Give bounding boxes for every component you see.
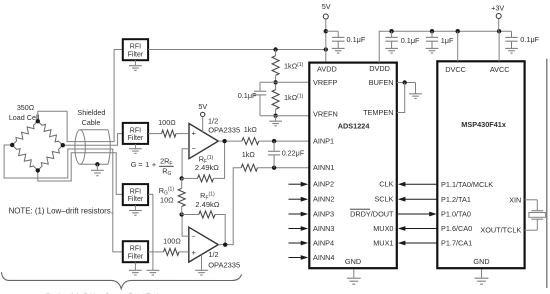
svg-text:MUX1: MUX1: [373, 239, 393, 248]
svg-text:P1.0/TA0: P1.0/TA0: [441, 210, 471, 219]
svg-text:AINN2: AINN2: [313, 195, 335, 204]
svg-text:AVCC: AVCC: [490, 65, 510, 74]
svg-text:RFI: RFI: [130, 127, 141, 134]
svg-text:XIN: XIN: [509, 195, 521, 204]
svg-text:+: +: [192, 128, 196, 137]
svg-text:OPA2335: OPA2335: [208, 126, 240, 135]
svg-text:0.1μF: 0.1μF: [347, 35, 366, 44]
svg-text:Filter: Filter: [128, 135, 144, 142]
svg-text:GND: GND: [473, 257, 489, 266]
svg-text:P1.7/CA1: P1.7/CA1: [441, 239, 472, 248]
svg-text:1: 1: [145, 160, 149, 169]
svg-text:AVDD: AVDD: [317, 65, 337, 74]
svg-text:AINP1: AINP1: [313, 137, 334, 146]
svg-text:SCLK: SCLK: [374, 195, 393, 204]
svg-text:+: +: [192, 248, 196, 257]
svg-text:BUFEN: BUFEN: [369, 78, 394, 87]
svg-text:AINP2: AINP2: [313, 180, 334, 189]
svg-text:=: =: [138, 160, 142, 169]
svg-text:−: −: [191, 232, 195, 241]
svg-text:Filter: Filter: [128, 253, 144, 260]
svg-text:100Ω: 100Ω: [163, 236, 181, 245]
svg-text:OPA2335: OPA2335: [208, 260, 240, 269]
svg-text:5V: 5V: [198, 102, 207, 111]
svg-text:100Ω: 100Ω: [158, 118, 176, 127]
svg-text:1kΩ: 1kΩ: [242, 150, 256, 159]
svg-text:−: −: [192, 144, 196, 153]
svg-text:5V: 5V: [322, 2, 331, 11]
svg-text:350Ω: 350Ω: [17, 103, 35, 112]
svg-text:AINN4: AINN4: [313, 253, 335, 262]
svg-text:+3V: +3V: [491, 3, 504, 12]
svg-text:RFI: RFI: [130, 189, 141, 196]
svg-text:VREFP: VREFP: [313, 78, 337, 87]
svg-text:RFI: RFI: [130, 44, 141, 51]
svg-text:AINN3: AINN3: [313, 224, 335, 233]
svg-text:DVCC: DVCC: [445, 65, 466, 74]
svg-text:G: G: [131, 160, 137, 169]
svg-text:P1.6/CA0: P1.6/CA0: [441, 224, 472, 233]
svg-text:CLK: CLK: [379, 180, 393, 189]
svg-text:Load Cell: Load Cell: [9, 113, 40, 122]
svg-text:2.49kΩ: 2.49kΩ: [195, 200, 219, 209]
svg-text:Cable: Cable: [82, 118, 101, 127]
svg-text:Shielded: Shielded: [77, 108, 105, 117]
svg-text:DVDD: DVDD: [369, 64, 390, 73]
svg-text:0.1μF: 0.1μF: [238, 91, 257, 100]
svg-text:Filter: Filter: [128, 196, 144, 203]
svg-text:TEMPEN: TEMPEN: [363, 108, 393, 117]
svg-text:VREFN: VREFN: [313, 110, 338, 119]
svg-text:NOTE: (1) Low–drift resistors.: NOTE: (1) Low–drift resistors.: [9, 207, 113, 216]
svg-text:1μF: 1μF: [441, 36, 454, 45]
svg-text:AINP3: AINP3: [313, 210, 334, 219]
svg-text:1/2: 1/2: [208, 250, 218, 259]
svg-text:1kΩ: 1kΩ: [244, 125, 258, 134]
svg-text:P1.2/TA1: P1.2/TA1: [441, 195, 471, 204]
svg-text:10Ω: 10Ω: [160, 195, 174, 204]
svg-text:RFI: RFI: [130, 246, 141, 253]
svg-text:0.1μF: 0.1μF: [401, 36, 420, 45]
svg-text:AINP4: AINP4: [313, 239, 334, 248]
svg-text:0.1μF: 0.1μF: [520, 35, 539, 44]
svg-text:2.49kΩ: 2.49kΩ: [195, 163, 219, 172]
svg-text:P1.1/TA0/MCLK: P1.1/TA0/MCLK: [441, 180, 493, 189]
svg-text:ADS1224: ADS1224: [338, 121, 371, 130]
svg-text:XOUT/TCLK: XOUT/TCLK: [480, 226, 521, 235]
svg-text:+: +: [152, 160, 156, 169]
svg-text:0.22μF: 0.22μF: [282, 148, 305, 157]
svg-text:AINN1: AINN1: [313, 163, 335, 172]
svg-text:1/2: 1/2: [208, 117, 218, 126]
svg-text:MSP430F41x: MSP430F41x: [461, 120, 506, 129]
svg-text:Filter: Filter: [128, 51, 144, 58]
svg-text:MUX0: MUX0: [373, 224, 393, 233]
svg-text:DRDY/DOUT: DRDY/DOUT: [350, 210, 394, 219]
svg-text:GND: GND: [345, 257, 361, 266]
